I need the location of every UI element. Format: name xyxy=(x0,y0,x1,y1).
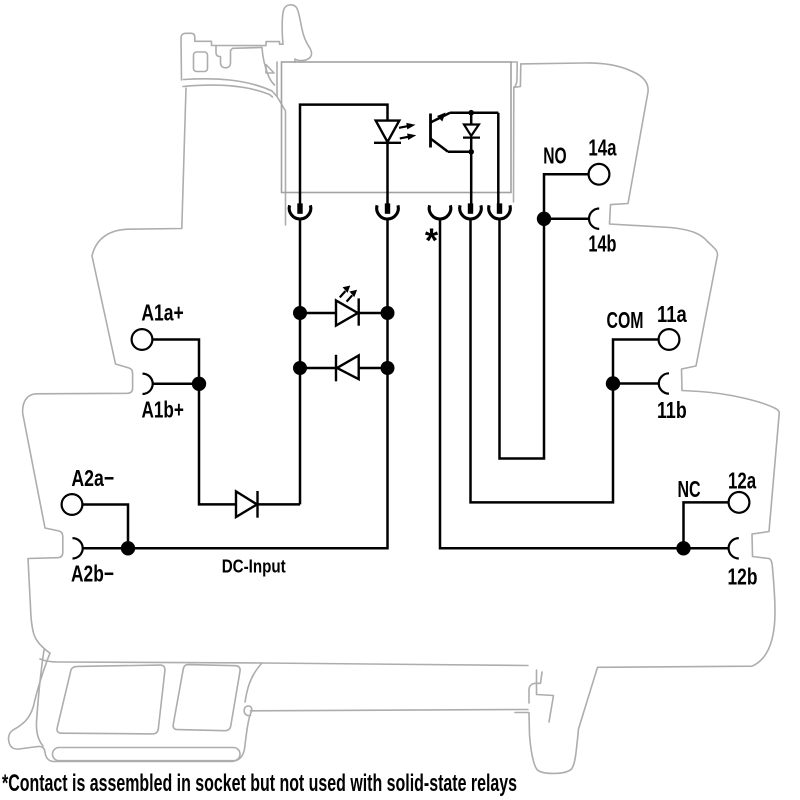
wire: indicator diode bottom branch xyxy=(300,367,388,370)
indicator LED (top) xyxy=(336,298,359,325)
junction, LED branch top-right xyxy=(381,306,395,320)
relay module box xyxy=(282,62,512,193)
terminal 12a xyxy=(729,492,750,513)
svg-text:A1a+: A1a+ xyxy=(141,300,183,326)
wire: COM chain xyxy=(471,219,659,502)
module slot groove xyxy=(514,62,518,202)
terminal 11b xyxy=(659,373,669,393)
opto bottom horizontal xyxy=(448,152,471,204)
socket contact cup, coil pin A2 xyxy=(377,205,399,219)
relay pin A2 xyxy=(385,203,390,213)
svg-text:A1b+: A1b+ xyxy=(142,397,184,423)
terminal A1a xyxy=(132,329,153,350)
wire: A2a xyxy=(82,505,128,549)
junction, LED branch top-left xyxy=(293,306,307,320)
bottom edge between feet xyxy=(262,663,528,666)
terminal 14a xyxy=(589,164,610,185)
svg-text:NO: NO xyxy=(543,142,566,168)
wire: COM to 11b xyxy=(613,382,659,385)
latch middle cuts xyxy=(216,46,262,68)
left body edge with terminal steps xyxy=(23,88,186,653)
terminal A1b xyxy=(143,374,153,394)
transistor base bar xyxy=(429,114,432,148)
opto LED wire below xyxy=(386,143,389,204)
latch right wedge xyxy=(266,65,274,74)
left foot top edge and right slope xyxy=(40,659,262,702)
wire: NC to 12b xyxy=(684,547,729,550)
opto LED (emitter) xyxy=(374,121,401,143)
svg-text:11a: 11a xyxy=(657,301,687,327)
opto transistor top horizontal xyxy=(450,111,498,114)
wire: indicator LED top branch xyxy=(300,312,388,315)
svg-text:*Contact is assembled in socke: *Contact is assembled in socket but not … xyxy=(2,770,517,797)
wire: top loop inside module xyxy=(300,105,388,205)
svg-text:NC: NC xyxy=(678,476,701,502)
transistor collector diagonal xyxy=(431,113,451,123)
svg-text:*: * xyxy=(425,222,439,260)
latch finger xyxy=(282,5,311,62)
wire: NC up to 12a xyxy=(684,502,729,548)
left foot inner wall line xyxy=(36,650,44,746)
svg-text:12b: 12b xyxy=(728,564,758,590)
transistor arrow xyxy=(437,113,446,122)
relay pin A1 xyxy=(297,203,302,213)
svg-text:11b: 11b xyxy=(657,397,687,423)
transistor emitter diagonal xyxy=(431,139,449,152)
junction node NO/14 xyxy=(537,212,551,226)
relay pin COM xyxy=(468,203,473,213)
socket contact cup, COM pin xyxy=(460,205,482,219)
wire: A1b xyxy=(153,383,199,386)
junction node A2 xyxy=(121,541,135,555)
socket contact cup, NO pin xyxy=(489,205,511,219)
wire: NO to 14b xyxy=(544,218,589,221)
svg-text:COM: COM xyxy=(607,307,644,333)
wire: star contact to NC junction xyxy=(440,219,684,548)
spring arcs xyxy=(184,79,278,97)
black circuit xyxy=(82,105,728,549)
svg-text:14a: 14a xyxy=(588,135,616,161)
opto diode D3 wires xyxy=(470,113,473,152)
junction, diode branch bottom-left xyxy=(293,361,307,375)
wire: A2b + long DC input line xyxy=(83,219,388,548)
svg-text:A2a−: A2a− xyxy=(71,465,114,491)
junction node NC/12 xyxy=(676,541,690,555)
latch inner hole xyxy=(194,52,208,72)
terminal 12b xyxy=(729,538,739,558)
wire: A1a xyxy=(152,340,199,384)
terminal 14b xyxy=(589,209,599,229)
terminal A2a xyxy=(62,494,83,515)
wire: NO chain xyxy=(500,174,589,458)
junction node COM/11 xyxy=(606,376,620,390)
indicator diode (bottom) xyxy=(336,355,359,382)
opto output right vertical xyxy=(497,113,500,205)
inner wall left of module xyxy=(277,62,286,225)
wire: V300 below cup to diode line xyxy=(299,219,302,504)
svg-text:14b: 14b xyxy=(588,230,616,256)
right housing block and right side xyxy=(515,63,779,773)
terminal 11a xyxy=(659,329,680,350)
opto diode D3 xyxy=(463,125,480,138)
opto junction dots xyxy=(468,110,474,116)
junction node A1 xyxy=(192,377,206,391)
left foot (DIN clip) xyxy=(9,653,252,761)
socket contact cup, unused contact (*) xyxy=(429,205,451,219)
svg-text:A2b−: A2b− xyxy=(71,561,114,587)
socket contact cup, coil pin A1 xyxy=(289,205,311,219)
input diode D1 xyxy=(236,491,258,518)
foot hole 2 xyxy=(173,665,240,731)
opto LED arrows xyxy=(399,123,416,140)
right clip inner detail xyxy=(529,672,542,703)
latch arm and left block xyxy=(181,33,283,80)
junction, diode branch bottom-right xyxy=(381,361,395,375)
foot hole 1 xyxy=(57,665,165,734)
svg-text:DC-Input: DC-Input xyxy=(222,556,286,576)
terminal A2b xyxy=(73,538,83,558)
wire: diode branch horizontal xyxy=(199,384,300,505)
indicator LED arrows xyxy=(340,286,357,302)
rail top line xyxy=(251,710,529,711)
svg-text:12a: 12a xyxy=(728,468,756,494)
relay pin NO xyxy=(497,203,502,213)
foot bottom slot xyxy=(53,748,241,761)
